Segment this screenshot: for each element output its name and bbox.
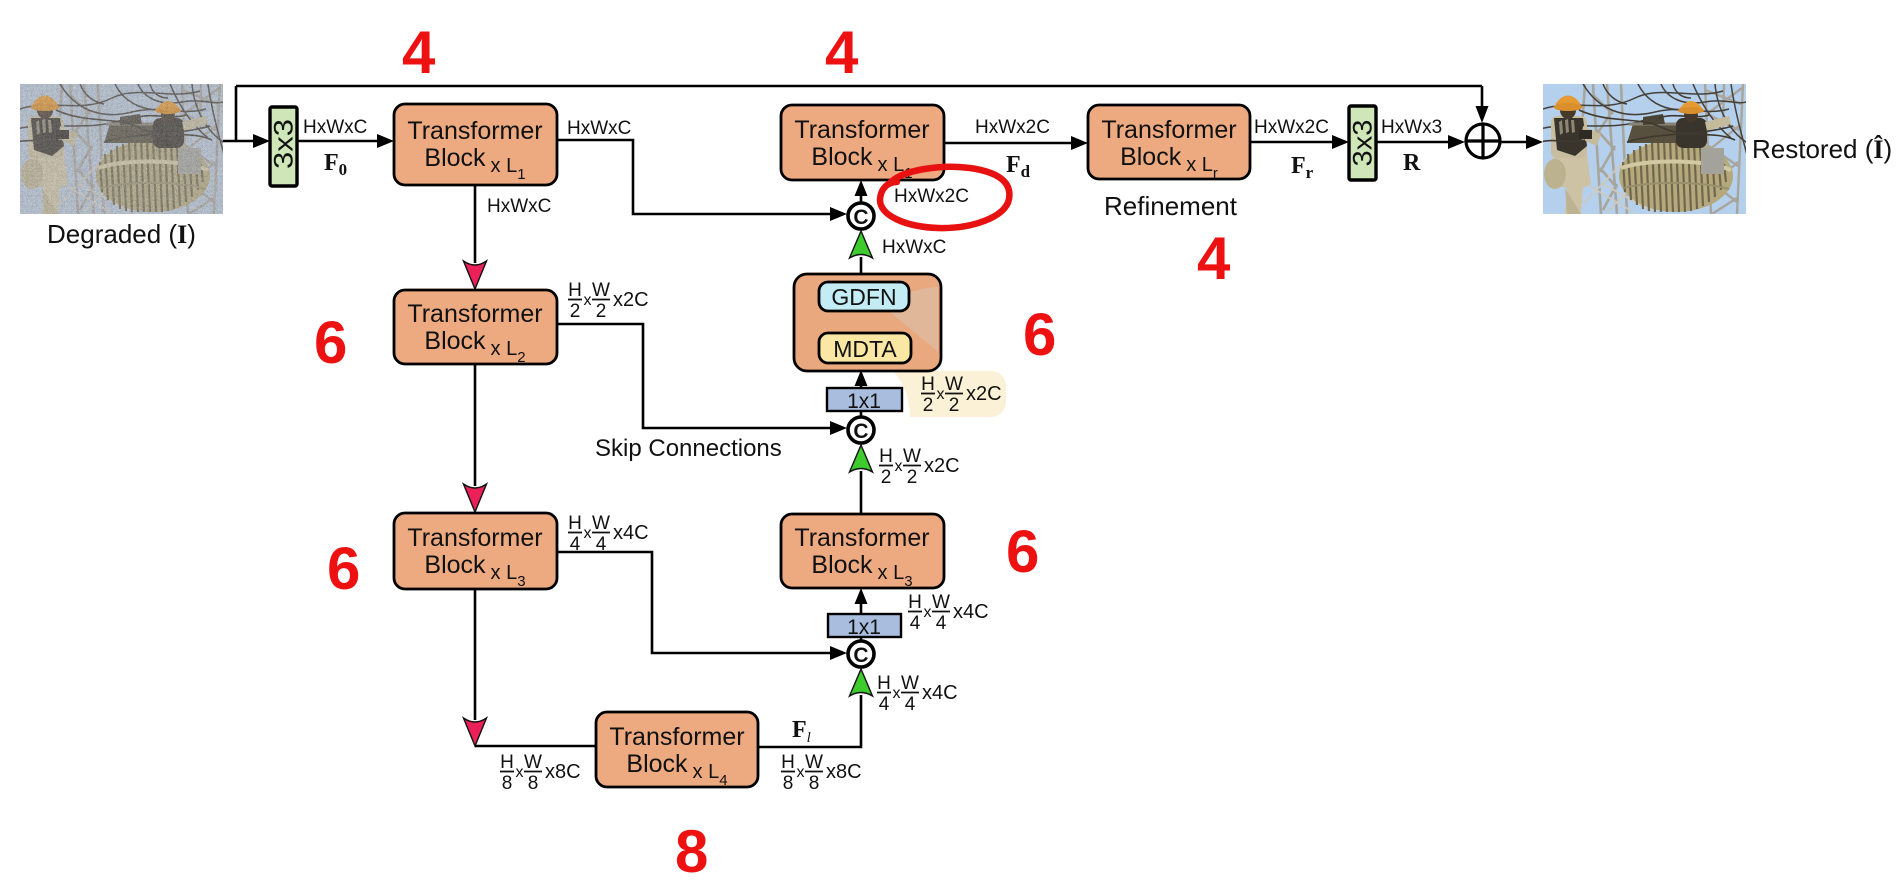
svg-text:Degraded (I): Degraded (I) bbox=[47, 219, 196, 249]
wire concat C3 to 1x1 a bbox=[860, 637, 863, 641]
restored output photo bbox=[1540, 84, 1749, 214]
wire 1x1 a to decoder L3 bbox=[855, 588, 868, 614]
GDFN box bbox=[819, 282, 909, 311]
svg-text:6: 6 bbox=[327, 535, 360, 602]
red note 6 decoder L3 bbox=[1006, 518, 1039, 585]
svg-text:3x3: 3x3 bbox=[269, 119, 299, 169]
label HxWxC encoder L1 out bbox=[567, 118, 631, 139]
encoder block L2 bbox=[394, 290, 557, 366]
svg-text:R: R bbox=[1403, 150, 1421, 176]
down arrowhead pink 1 bbox=[464, 261, 487, 289]
red note 6 GDFN level bbox=[1023, 301, 1056, 368]
conv 3x3 output box bbox=[1348, 106, 1378, 180]
wire skip level3: encoder L3 to concat C3 bbox=[557, 552, 847, 660]
svg-text:Refinement: Refinement bbox=[1104, 191, 1238, 221]
svg-text:HxWx3: HxWx3 bbox=[1381, 117, 1442, 138]
wire 3x3 out to sum bbox=[1376, 135, 1465, 149]
conv 3x3 input box bbox=[269, 107, 299, 186]
label HxWx3 bbox=[1381, 117, 1442, 138]
svg-text:Transformer: Transformer bbox=[407, 117, 542, 145]
MDTA-GDFN container bbox=[794, 274, 941, 371]
decoder block L1 bbox=[781, 105, 944, 182]
wire concat C2 to 1x1 b bbox=[860, 411, 863, 417]
red note 4 encoder L1 bbox=[402, 19, 436, 86]
label Skip Connections bbox=[595, 435, 782, 462]
concat C2 circle bbox=[848, 417, 874, 443]
wire MDTA to GDFN bbox=[855, 310, 868, 333]
sum plus circle bbox=[1466, 124, 1500, 158]
label F0 bbox=[324, 150, 347, 179]
svg-text:F0: F0 bbox=[324, 150, 347, 179]
wire latent L4 out to concat C3 bbox=[758, 695, 861, 747]
svg-text:C: C bbox=[853, 420, 868, 443]
red note 4 refinement bbox=[1197, 225, 1231, 292]
svg-text:C: C bbox=[853, 206, 868, 229]
wire 1x1 b to MDTA block bbox=[855, 370, 868, 388]
svg-text:C: C bbox=[853, 644, 868, 667]
wire refinement to 3x3 out bbox=[1250, 135, 1349, 149]
down arrowhead pink 3 bbox=[464, 718, 487, 746]
encoder block L3 bbox=[394, 513, 557, 590]
label HxWx2C refinement out bbox=[1254, 117, 1329, 138]
label frac H2W2x2C encoder L2 bbox=[568, 280, 649, 322]
svg-text:4: 4 bbox=[825, 19, 859, 86]
wire sum to restored image bbox=[1501, 135, 1543, 149]
latent block L4 bbox=[596, 712, 758, 789]
svg-text:MDTA: MDTA bbox=[833, 336, 897, 362]
label frac H8W8x8C latent right bbox=[781, 752, 862, 794]
down arrowhead pink 2 bbox=[464, 484, 487, 512]
svg-text:Transformer: Transformer bbox=[407, 524, 542, 552]
up arrowhead green C2 bbox=[850, 445, 873, 472]
label HxWxC input bbox=[303, 117, 367, 138]
svg-text:6: 6 bbox=[1006, 518, 1039, 585]
wire 3x3 to encoder L1 bbox=[297, 134, 394, 148]
wire GDFN block up to concat C1 bbox=[860, 257, 863, 274]
svg-text:HxWx2C: HxWx2C bbox=[894, 186, 969, 207]
wire skip level1: encoder L1 to concat C1 bbox=[557, 140, 847, 221]
wire input junction vertical bbox=[235, 86, 238, 141]
label HxWx2C decoder out bbox=[975, 117, 1050, 138]
label Fr bbox=[1291, 153, 1314, 182]
wire decoder L3 up to concat C2 bbox=[860, 471, 863, 514]
svg-text:HxWx2C: HxWx2C bbox=[975, 117, 1050, 138]
label Degraded (I) bbox=[47, 219, 196, 249]
svg-text:8: 8 bbox=[675, 818, 708, 885]
label R bbox=[1403, 150, 1421, 176]
red note 8 latent bbox=[675, 818, 708, 885]
refinement block Lr bbox=[1088, 105, 1250, 182]
svg-text:1x1: 1x1 bbox=[847, 390, 881, 413]
svg-text:Transformer: Transformer bbox=[609, 723, 744, 751]
svg-text:Transformer: Transformer bbox=[1101, 116, 1236, 144]
concat C1 circle bbox=[848, 203, 874, 229]
label frac H2W2x2C conv1x1 b bbox=[921, 374, 1002, 416]
wire input image to 3x3 bbox=[223, 134, 270, 148]
red note 6 encoder L3 bbox=[327, 535, 360, 602]
wire top-skip drop into sum bbox=[1476, 86, 1489, 123]
wire decoder L1 to refinement bbox=[944, 136, 1088, 150]
wire encoder L1 down to L2 bbox=[474, 185, 477, 263]
wire encoder L3 down bbox=[474, 589, 477, 720]
MDTA box bbox=[819, 333, 911, 363]
wire encoder L2 down to L3 bbox=[474, 364, 477, 486]
svg-text:3x3: 3x3 bbox=[1348, 120, 1378, 167]
svg-text:GDFN: GDFN bbox=[831, 284, 896, 310]
svg-text:Skip Connections: Skip Connections bbox=[595, 435, 782, 462]
svg-text:HxWxC: HxWxC bbox=[487, 196, 551, 217]
svg-text:6: 6 bbox=[1023, 301, 1056, 368]
conv 1x1 box b (level 2C) bbox=[827, 388, 902, 413]
svg-text:Fd: Fd bbox=[1006, 152, 1031, 181]
label HxWx2C circled bbox=[894, 186, 969, 207]
wire concat C1 to decoder L1 bbox=[855, 180, 868, 203]
concat C3 circle bbox=[848, 641, 874, 667]
svg-text:4: 4 bbox=[1197, 225, 1231, 292]
svg-text:HxWxC: HxWxC bbox=[303, 117, 367, 138]
wire into latent block L4 bbox=[475, 745, 596, 748]
svg-text:HxWxC: HxWxC bbox=[567, 118, 631, 139]
up arrowhead green C3 bbox=[850, 669, 873, 696]
wire skip level2: encoder L2 to concat C2 bbox=[557, 324, 847, 435]
conv 1x1 box a (level 4C) bbox=[828, 614, 901, 639]
degraded input photo bbox=[17, 84, 226, 215]
wire top long skip bbox=[236, 85, 1482, 88]
decoder block L3 bbox=[781, 514, 944, 590]
label frac H4W4x4C concat C3 bbox=[877, 673, 958, 715]
svg-text:HxWxC: HxWxC bbox=[882, 237, 946, 258]
svg-text:Transformer: Transformer bbox=[407, 300, 542, 328]
label Fl latent out bbox=[792, 717, 811, 746]
svg-text:Transformer: Transformer bbox=[794, 116, 929, 144]
svg-text:6: 6 bbox=[314, 309, 347, 376]
red note 4 decoder L1 bbox=[825, 19, 859, 86]
label frac H4W4x4C encoder L3 bbox=[568, 513, 649, 555]
svg-text:Fr: Fr bbox=[1291, 153, 1314, 182]
red hand-drawn ellipse bbox=[880, 167, 1009, 228]
svg-text:Restored (Î): Restored (Î) bbox=[1752, 134, 1892, 164]
label frac H4W4x4C conv1x1 a bbox=[908, 592, 989, 634]
label Fd bbox=[1006, 152, 1031, 181]
label frac H2W2x2C concat C2 bbox=[879, 446, 960, 488]
label Refinement bbox=[1104, 191, 1238, 221]
label HxWxC encoder L1 down bbox=[487, 196, 551, 217]
svg-text:Fl: Fl bbox=[792, 717, 811, 746]
encoder block L1 bbox=[394, 104, 557, 185]
svg-text:HxWx2C: HxWx2C bbox=[1254, 117, 1329, 138]
cream highlight behind 1x1b label bbox=[893, 371, 1006, 417]
label Restored (I hat) bbox=[1752, 134, 1892, 164]
svg-text:4: 4 bbox=[402, 19, 436, 86]
up arrowhead green C1 bbox=[850, 231, 873, 258]
svg-text:1x1: 1x1 bbox=[847, 616, 881, 639]
label HxWxC concat C1 bbox=[882, 237, 946, 258]
label frac H8W8x8C latent left bbox=[500, 752, 581, 794]
svg-text:Transformer: Transformer bbox=[794, 524, 929, 552]
red note 6 encoder L2 bbox=[314, 309, 347, 376]
